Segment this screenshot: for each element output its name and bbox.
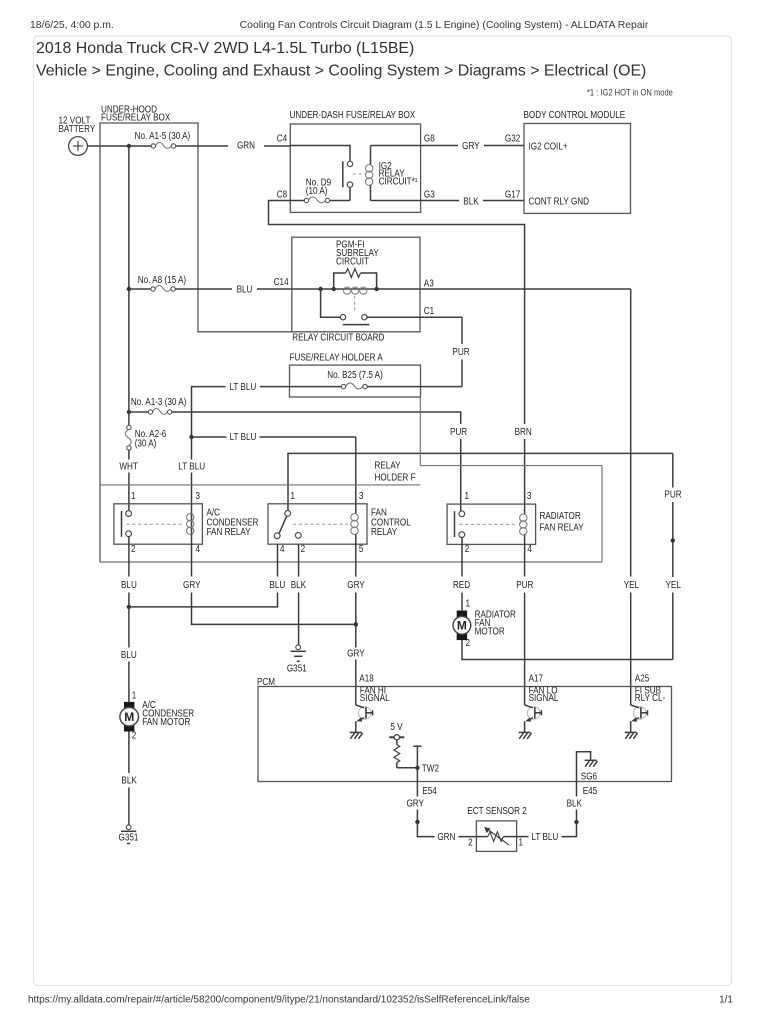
relay circuit board box <box>292 237 420 343</box>
svg-text:PUR: PUR <box>664 489 682 500</box>
svg-text:C4: C4 <box>277 133 287 144</box>
wire LT BLU ECT to E45 <box>517 822 577 842</box>
wire GRY to PCM A18 <box>347 624 365 705</box>
svg-text:G3: G3 <box>424 189 435 200</box>
relay A/C coil <box>187 514 194 545</box>
footer url <box>28 995 530 1006</box>
ECT sensor 2 box <box>467 805 527 851</box>
wire fuse B25 to PUR node <box>367 386 462 388</box>
relay radiator fan coil <box>520 504 527 544</box>
resistor subrelay <box>334 269 377 289</box>
svg-text:2: 2 <box>466 637 471 648</box>
relay radiator fan actuator dash <box>460 523 517 525</box>
svg-text:LT BLU: LT BLU <box>178 461 205 472</box>
wire C14 to A3 through subrelay <box>292 288 631 290</box>
page header document title <box>240 20 649 31</box>
wire G3 to BCM G17 BLK <box>371 196 525 207</box>
wire YEL right riser to motor return <box>666 579 681 659</box>
node GRY junction <box>354 622 358 626</box>
footnote *1 <box>587 87 673 98</box>
svg-text:2: 2 <box>301 543 306 554</box>
relay A/C condenser fan: box <box>114 504 259 544</box>
svg-text:BODY CONTROL MODULE: BODY CONTROL MODULE <box>524 110 626 121</box>
wire BLK to E45 <box>567 782 582 823</box>
relay fan control coil <box>351 504 358 544</box>
svg-text:No. A8 (15 A): No. A8 (15 A) <box>138 274 186 285</box>
svg-text:5: 5 <box>359 543 364 554</box>
relay radiator fan: box <box>447 504 584 544</box>
svg-text:GRY: GRY <box>347 648 365 659</box>
fuse No. A2-6 (30 A) <box>125 412 166 450</box>
relay radiator fan switch <box>455 511 465 538</box>
pin C4 <box>277 133 287 144</box>
svg-text:BLU: BLU <box>269 579 285 590</box>
svg-text:G8: G8 <box>424 133 435 144</box>
node bus junction at battery feed <box>127 144 131 148</box>
svg-text:BRN: BRN <box>515 427 532 438</box>
svg-text:E45: E45 <box>583 785 597 796</box>
svg-text:SIGNAL: SIGNAL <box>360 692 390 703</box>
relay fan control actuator dash <box>293 523 348 525</box>
fuse No. A1-5 (30 A) <box>129 130 190 148</box>
svg-text:BLK: BLK <box>463 196 478 207</box>
svg-text:3: 3 <box>196 490 201 501</box>
pin G3 <box>424 189 435 200</box>
svg-text:A17: A17 <box>529 673 543 684</box>
svg-text:2018 Honda Truck CR-V 2WD L4-1: 2018 Honda Truck CR-V 2WD L4-1.5L Turbo … <box>36 40 414 57</box>
svg-text:IG2 COIL+: IG2 COIL+ <box>529 141 568 152</box>
svg-text:1: 1 <box>131 490 136 501</box>
svg-text:E54: E54 <box>422 785 436 796</box>
wire BLU to A/C condenser fan motor <box>121 607 137 702</box>
svg-text:3: 3 <box>359 490 364 501</box>
svg-text:(10 A): (10 A) <box>306 186 328 197</box>
pin 1 ECT <box>519 837 524 848</box>
svg-text:4: 4 <box>280 543 285 554</box>
svg-text:1: 1 <box>132 690 137 701</box>
pin G32 <box>505 133 520 144</box>
svg-text:1: 1 <box>291 490 296 501</box>
node bus junction at A1-3 row <box>127 410 131 414</box>
transistor FAN HI driver <box>350 705 373 739</box>
wire C4 feed to IG2 relay switch <box>290 146 350 162</box>
wire battery to bus <box>87 145 128 147</box>
pin C14 <box>274 277 289 288</box>
svg-text:RELAY: RELAY <box>371 527 397 538</box>
svg-text:LT BLU: LT BLU <box>229 381 256 392</box>
svg-text:BLK: BLK <box>121 775 136 786</box>
ground G351 (fan control) <box>287 645 307 674</box>
svg-text:RELAY CIRCUIT BOARD: RELAY CIRCUIT BOARD <box>292 332 385 343</box>
pin E54 <box>417 768 436 796</box>
wire GRY fan control pin 5 down <box>347 544 365 624</box>
svg-text:SG6: SG6 <box>581 771 597 782</box>
svg-text:GRY: GRY <box>406 798 424 809</box>
wire C8 to radiator fan relay coil BRN <box>269 201 532 505</box>
svg-text:FAN RELAY: FAN RELAY <box>207 527 251 538</box>
wire GRN fuse A1-5 to C4 <box>176 140 291 151</box>
svg-text:*1 : IG2 HOT in ON mode: *1 : IG2 HOT in ON mode <box>587 87 673 98</box>
node subrelay left junction <box>318 287 322 291</box>
pin C1 <box>424 306 434 317</box>
vehicle title <box>36 40 414 57</box>
svg-text:GRY: GRY <box>183 579 201 590</box>
label IG2 COIL+ <box>529 141 568 152</box>
svg-text:G351: G351 <box>287 663 307 674</box>
battery B1 12 VOLT <box>59 115 96 155</box>
thermistor ECT sensor 2 <box>476 827 516 845</box>
wire to node TW2 <box>397 767 418 769</box>
fuse No. D9 (10 A) <box>290 177 350 203</box>
wire RED radiator relay pin 2 to radiator fan motor <box>453 537 471 610</box>
wire LT BLU into fuse B25 <box>192 381 342 435</box>
svg-text:BATTERY: BATTERY <box>59 123 96 134</box>
wire PUR radiator relay pin 4 to PCM A17 <box>516 544 534 705</box>
svg-text:GRN: GRN <box>237 140 255 151</box>
wire YEL A3 riser to PCM A25 <box>624 289 639 705</box>
pin G17 <box>505 189 520 200</box>
svg-text:No. B25 (7.5 A): No. B25 (7.5 A) <box>327 369 383 380</box>
svg-text:2: 2 <box>468 837 473 848</box>
node TW2 <box>415 766 419 770</box>
svg-text:https://my.alldata.com/repair/: https://my.alldata.com/repair/#/article/… <box>28 995 530 1006</box>
svg-text:RLY CL-: RLY CL- <box>635 692 665 703</box>
svg-text:C14: C14 <box>274 277 289 288</box>
relay IG2 switch contacts <box>343 161 353 187</box>
node subrelay resistor left junction <box>332 287 336 291</box>
svg-text:A3: A3 <box>424 278 434 289</box>
fuse No. B25 (7.5 A) <box>327 369 383 389</box>
ground SG6 internal <box>577 752 598 782</box>
svg-text:2: 2 <box>132 730 137 741</box>
wire GRY E54 down <box>406 782 424 823</box>
label FAN LO SIGNAL <box>529 685 559 703</box>
svg-text:PCM: PCM <box>257 676 275 687</box>
switch subrelay actuator dash <box>354 296 356 314</box>
label PGM-FI SUBRELAY CIRCUIT <box>336 239 379 267</box>
svg-text:3: 3 <box>527 490 532 501</box>
fuse/relay holder A box <box>290 352 421 397</box>
5V supply <box>389 722 404 740</box>
svg-text:G17: G17 <box>505 189 520 200</box>
wire bus vertical <box>128 146 130 412</box>
wire BLK fan control pin 2 to ground G351 <box>291 544 306 645</box>
pin A17 <box>529 673 543 684</box>
svg-text:RADIATOR: RADIATOR <box>540 510 582 521</box>
pin labels radiator fan relay <box>465 490 532 554</box>
node splice GRY <box>415 820 419 824</box>
svg-text:18/6/25, 4:00 p.m.: 18/6/25, 4:00 p.m. <box>30 20 114 31</box>
PCM box <box>257 676 672 781</box>
relay holder F box <box>100 397 602 562</box>
wire BLU fan control pin 4 down joins motor feed <box>129 544 285 607</box>
svg-text:TW2: TW2 <box>422 763 439 774</box>
svg-text:2: 2 <box>131 543 136 554</box>
node subrelay resistor right junction <box>374 287 378 291</box>
pin G8 <box>424 133 435 144</box>
page header date <box>30 20 114 31</box>
label CONT RLY GND <box>529 196 590 207</box>
svg-text:BLU: BLU <box>237 284 253 295</box>
node BLU junction <box>127 605 131 609</box>
transistor FI SUB driver <box>625 705 648 739</box>
svg-text:1: 1 <box>519 837 524 848</box>
wire fan control relay pin 1 to PUR right riser <box>288 453 682 577</box>
svg-text:C1: C1 <box>424 306 434 317</box>
svg-text:M: M <box>457 619 467 633</box>
label FAN HI SIGNAL <box>360 685 390 703</box>
pin SG6 label <box>581 771 597 782</box>
svg-text:2: 2 <box>465 543 470 554</box>
svg-text:BLU: BLU <box>121 649 137 660</box>
wire radiator motor return to YEL riser <box>462 640 673 660</box>
svg-text:UNDER-DASH FUSE/RELAY BOX: UNDER-DASH FUSE/RELAY BOX <box>290 110 416 121</box>
svg-text:FAN MOTOR: FAN MOTOR <box>142 716 191 727</box>
fuse No. A1-3 (30 A) <box>129 397 187 415</box>
wire BLK motor to ground G351 <box>121 731 136 824</box>
pin C8 <box>277 189 287 200</box>
motor radiator fan <box>453 598 516 648</box>
svg-text:ECT SENSOR 2: ECT SENSOR 2 <box>467 805 527 816</box>
svg-text:SIGNAL: SIGNAL <box>529 692 559 703</box>
pin A25 <box>635 673 649 684</box>
svg-text:FAN RELAY: FAN RELAY <box>540 522 584 533</box>
svg-text:BLK: BLK <box>291 579 306 590</box>
svg-text:FUSE/RELAY BOX: FUSE/RELAY BOX <box>101 112 170 123</box>
motor A/C condenser fan <box>120 690 195 741</box>
coil subrelay <box>344 287 367 294</box>
svg-text:PUR: PUR <box>452 346 470 357</box>
footer page number <box>719 995 733 1006</box>
svg-text:1: 1 <box>466 598 471 609</box>
relay fan control switch <box>274 511 301 539</box>
stub TW2 sense input <box>413 746 421 768</box>
svg-text:LT BLU: LT BLU <box>531 831 558 842</box>
relay fan control: box <box>268 504 411 544</box>
svg-text:MOTOR: MOTOR <box>475 626 506 637</box>
wire GRY A/C relay pin 4 down to A18 row <box>183 544 356 624</box>
svg-text:G351: G351 <box>119 832 139 843</box>
ground G351 (A/C motor) <box>119 825 139 844</box>
pin TW2 label <box>422 763 439 774</box>
resistor pull-up <box>394 740 400 768</box>
svg-text:GRY: GRY <box>347 579 365 590</box>
pin E45 <box>583 785 597 796</box>
node bus junction at A8 row <box>127 287 131 291</box>
wire C1 PUR down to fuse B25 row <box>420 317 470 386</box>
svg-text:4: 4 <box>196 543 201 554</box>
svg-text:PUR: PUR <box>450 427 468 438</box>
svg-text:A25: A25 <box>635 673 649 684</box>
transistor FAN LO driver <box>519 705 542 739</box>
svg-text:No. A1-5 (30 A): No. A1-5 (30 A) <box>135 130 191 141</box>
svg-text:G32: G32 <box>505 133 520 144</box>
svg-text:CIRCUIT: CIRCUIT <box>336 256 369 267</box>
svg-text:WHT: WHT <box>119 461 138 472</box>
wire WHT A2-6 to A/C relay pin 1 <box>119 450 138 511</box>
pin labels A/C relay <box>131 490 200 554</box>
svg-text:FUSE/RELAY HOLDER A: FUSE/RELAY HOLDER A <box>290 352 383 363</box>
svg-text:BLU: BLU <box>121 579 137 590</box>
svg-text:RELAY: RELAY <box>375 460 401 471</box>
svg-text:HOLDER F: HOLDER F <box>375 472 417 483</box>
svg-text:YEL: YEL <box>624 579 639 590</box>
svg-text:PUR: PUR <box>516 579 534 590</box>
svg-text:(30 A): (30 A) <box>135 438 157 449</box>
pin 2 ECT <box>468 837 473 848</box>
svg-text:4: 4 <box>527 543 532 554</box>
pin A3 <box>424 278 434 289</box>
pin A18 <box>359 673 373 684</box>
wire BLU A/C relay pin 2 down <box>121 536 137 607</box>
svg-text:M: M <box>124 710 134 724</box>
node LT BLU junction <box>189 435 193 439</box>
relay A/C actuator dash <box>127 523 184 525</box>
node splice on right riser <box>671 538 675 542</box>
wire BLU fuse A8 to C14 <box>175 284 291 295</box>
relay IG2 actuator dash <box>353 173 365 175</box>
pin labels fan control relay <box>280 490 363 554</box>
wire G8 to BCM G32 GRY <box>371 141 525 152</box>
svg-text:5 V: 5 V <box>390 722 402 733</box>
relay A/C switch <box>122 511 132 537</box>
label FI SUB RLY CL- <box>635 685 665 703</box>
relay IG2 coil <box>366 146 418 201</box>
svg-text:A18: A18 <box>359 673 373 684</box>
svg-text:GRN: GRN <box>437 831 455 842</box>
svg-text:CIRCUIT*¹: CIRCUIT*¹ <box>379 176 418 187</box>
under-dash fuse/relay box <box>290 110 421 213</box>
svg-text:C8: C8 <box>277 189 287 200</box>
breadcrumb subtitle <box>36 63 646 80</box>
body control module box <box>524 110 631 214</box>
svg-text:No. A1-3 (30 A): No. A1-3 (30 A) <box>131 397 187 408</box>
wire LT BLU down to A/C relay coil pin 3 <box>178 437 205 514</box>
wire A1-3 to radiator fan relay pin 1 PUR <box>172 412 468 512</box>
fuse No. A8 (15 A) <box>129 274 186 291</box>
svg-text:LT BLU: LT BLU <box>230 432 257 443</box>
under-hood fuse/relay box <box>100 104 292 562</box>
svg-text:Cooling Fan Controls Circuit D: Cooling Fan Controls Circuit Diagram (1.… <box>240 20 649 31</box>
svg-text:1: 1 <box>465 490 470 501</box>
wire LT BLU branch to fan control relay coil <box>192 432 356 504</box>
svg-text:YEL: YEL <box>666 579 681 590</box>
svg-text:BLK: BLK <box>567 798 582 809</box>
svg-text:1/1: 1/1 <box>719 995 733 1006</box>
svg-text:CONT RLY GND: CONT RLY GND <box>529 196 590 207</box>
node splice LT BLU <box>574 820 578 824</box>
svg-text:RED: RED <box>453 579 471 590</box>
svg-text:Vehicle > Engine, Cooling and: Vehicle > Engine, Cooling and Exhaust > … <box>36 63 646 80</box>
switch subrelay <box>321 289 420 325</box>
wire GRN to ECT sensor 2 <box>417 822 476 842</box>
svg-text:GRY: GRY <box>462 141 480 152</box>
